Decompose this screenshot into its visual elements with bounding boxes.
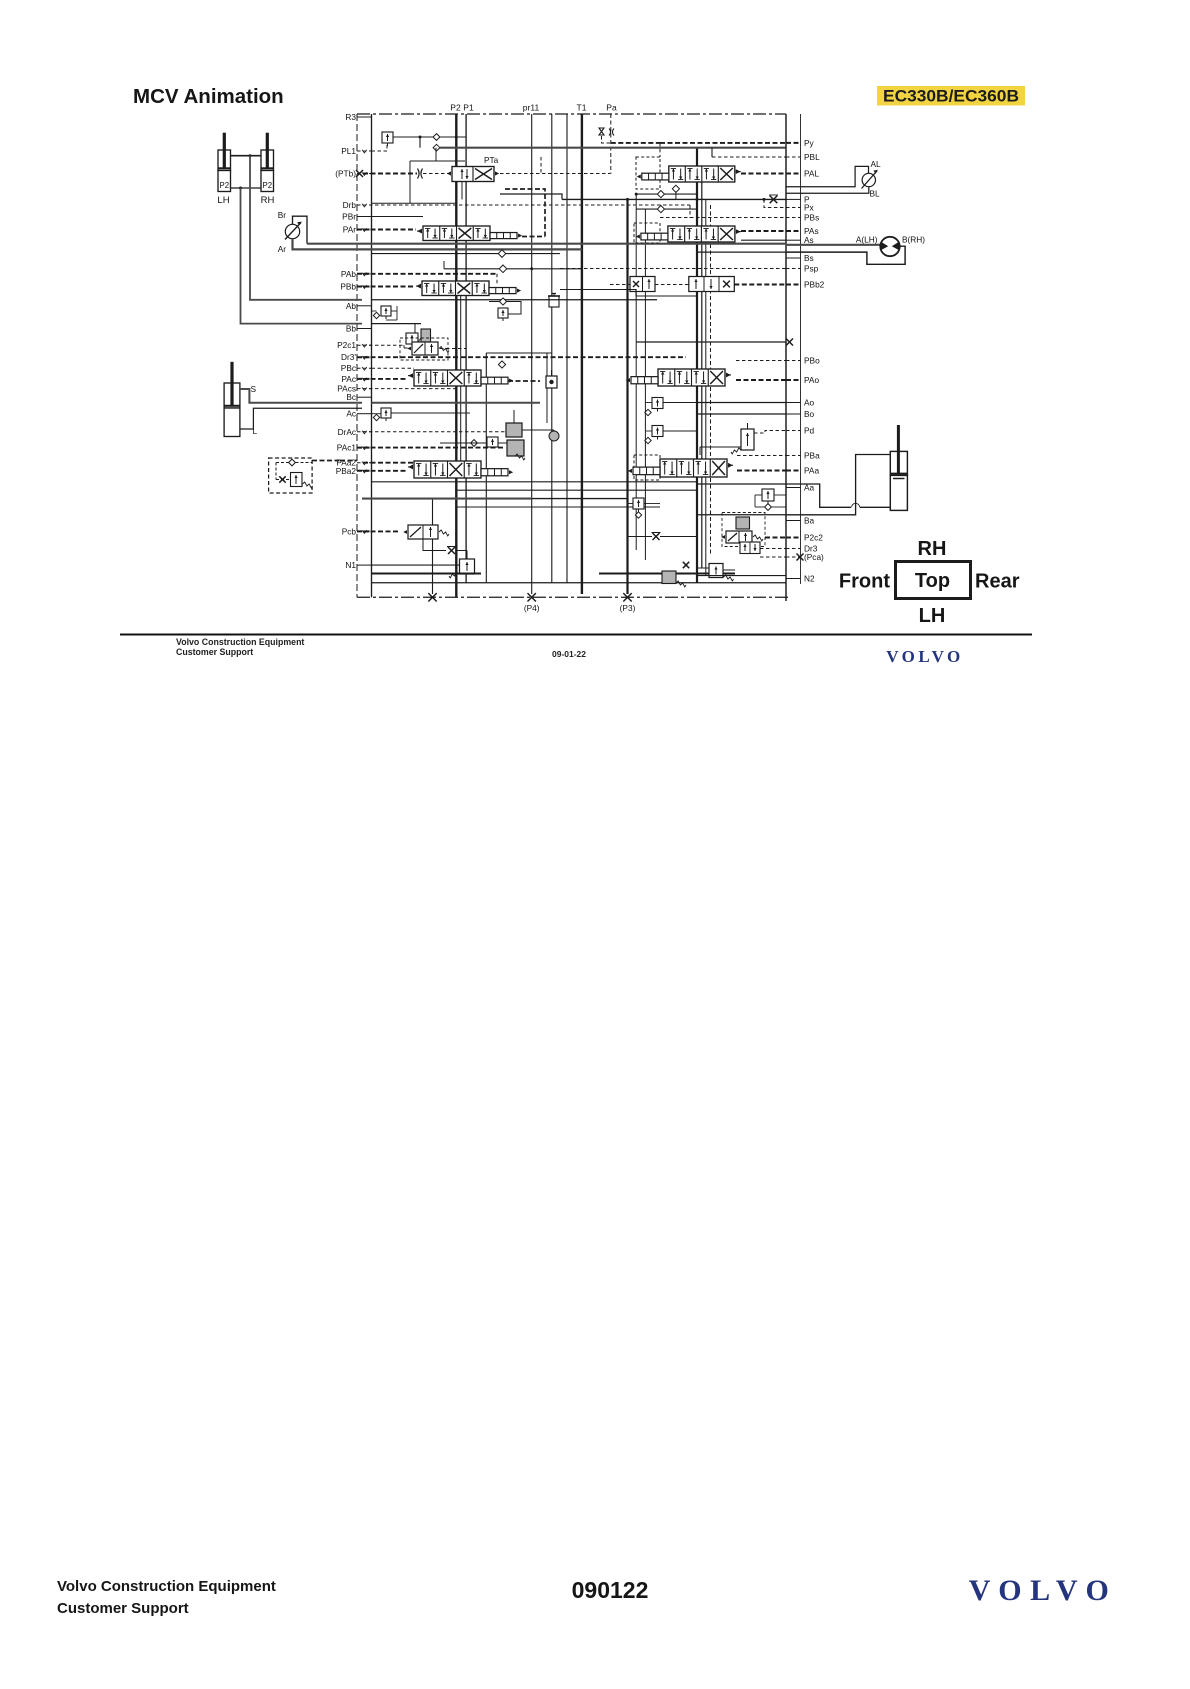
- svg-text:Bb: Bb: [346, 324, 357, 334]
- directional valve PAa2-PBa2: [414, 461, 481, 478]
- wire Aa cluster: [755, 494, 762, 496]
- wire As to motor thick: [786, 244, 881, 246]
- check valve above relief: [499, 298, 506, 305]
- svg-text:PBo: PBo: [804, 356, 820, 366]
- directional valve PAL: [669, 166, 735, 182]
- wire PAa2 dashed: [312, 460, 340, 462]
- wire Drb dashed pilot: [363, 204, 690, 206]
- wire Bc inside: [372, 402, 541, 404]
- svg-text:Pd: Pd: [804, 426, 815, 436]
- directional valve PAb-PBb: [422, 281, 489, 296]
- bus P2 parallel line: [460, 295, 462, 478]
- relief valve Ab cluster: [381, 306, 391, 316]
- svg-text:VOLVO: VOLVO: [969, 1574, 1118, 1607]
- gauge arrow: [862, 171, 878, 189]
- relief valve Bo: [652, 426, 663, 437]
- wire relief feed: [628, 503, 634, 505]
- wire bridge line 3 thick: [362, 498, 532, 500]
- svg-text:A(LH): A(LH): [856, 235, 878, 245]
- wire relief Ao: [645, 402, 652, 404]
- right bank vertical line e: [644, 209, 646, 560]
- wire PBL dashed: [712, 156, 786, 158]
- svg-text:PBa2: PBa2: [336, 466, 357, 476]
- wire Psp dashed: [560, 268, 786, 270]
- solenoid valve Bb cluster gray: [421, 329, 431, 342]
- wire P2c2 dashed: [765, 537, 786, 539]
- wire cylinders to port Bb: [241, 188, 363, 324]
- wire PBr to valve: [372, 216, 424, 218]
- pilot dashed riser near PTa: [540, 157, 542, 174]
- svg-text:LH: LH: [919, 605, 946, 627]
- plug X at (P4): [528, 593, 536, 601]
- relief valve Ao: [652, 398, 663, 409]
- check valves near P line: [657, 191, 664, 198]
- svg-text:R3: R3: [345, 112, 356, 122]
- wire Ar travel line B thick: [293, 239, 582, 250]
- wire P2c1 out dashed: [440, 348, 466, 350]
- plug X at (PTb): [356, 170, 363, 177]
- wire PAa pilot dashed: [737, 470, 786, 472]
- throttle check box: [487, 437, 498, 447]
- wire PAs pilot dashed: [741, 230, 786, 232]
- wire PAL to gauge: [786, 166, 869, 186]
- svg-text:Volvo Construction Equipment: Volvo Construction Equipment: [176, 637, 304, 647]
- svg-text:Customer Support: Customer Support: [57, 1600, 189, 1617]
- throttle N2 line: [653, 533, 660, 540]
- svg-text:PAc1: PAc1: [337, 443, 357, 453]
- wire N2: [697, 567, 709, 569]
- wire PBa2 pilot dashed: [363, 470, 407, 472]
- wire relief loop: [489, 301, 499, 303]
- Pa filter symbol b: [609, 129, 614, 136]
- wire PTa bottom stubs: [456, 182, 458, 195]
- valve in box: [291, 473, 303, 487]
- svg-text:T1: T1: [577, 103, 587, 113]
- check valve in box: [289, 459, 296, 466]
- check valve above valve3: [498, 361, 505, 368]
- svg-text:P2: P2: [263, 181, 273, 190]
- wire PTa drain dashed: [500, 173, 610, 175]
- bus P2 vertical supply line: [455, 114, 457, 597]
- bus Pa dashed pilot vertical: [610, 114, 612, 174]
- svg-text:Ar: Ar: [278, 244, 287, 254]
- wire Aa to cylinder: [786, 484, 851, 507]
- wire check to P2 bus: [440, 136, 467, 138]
- cylinder RH: [261, 150, 274, 171]
- svg-text:PBr: PBr: [342, 212, 356, 222]
- relief valve gray bottom: [662, 571, 676, 584]
- svg-text:Px: Px: [804, 203, 815, 213]
- wire bottom rail: [372, 582, 787, 584]
- plug X at (P3): [623, 593, 631, 601]
- valve Dr3: [740, 542, 760, 554]
- svg-text:P2c2: P2c2: [804, 533, 823, 543]
- wire Pcb down: [423, 539, 446, 551]
- spring in box: [303, 482, 313, 488]
- check valve lower: [433, 144, 440, 151]
- wire PBb2 dashed out: [734, 284, 786, 286]
- svg-text:PAL: PAL: [804, 169, 819, 179]
- wire Bo: [697, 413, 786, 415]
- wire cylinders to port Ab: [250, 156, 362, 300]
- wire As inside: [741, 239, 786, 241]
- svg-text:(P3): (P3): [620, 603, 636, 613]
- wire Ab inside: [372, 299, 658, 301]
- wire port S to Bc: [240, 389, 362, 403]
- wire N1: [372, 564, 460, 566]
- wire step lines below PBb2: [560, 290, 697, 297]
- wire Pd dashed: [754, 431, 786, 434]
- valve block right boundary: [785, 114, 787, 601]
- svg-text:PBs: PBs: [804, 213, 819, 223]
- wire relief to checks: [393, 136, 434, 138]
- right bank vertical supply thick: [696, 148, 698, 583]
- svg-text:PL1: PL1: [341, 146, 356, 156]
- wire PAL pilot dashed: [741, 173, 786, 175]
- wire port L to Ac: [240, 408, 362, 429]
- dashed enclosure P2c2: [722, 513, 765, 547]
- directional valve PAr-PBr: [423, 226, 490, 241]
- wire Dr3p dashed long: [363, 356, 686, 358]
- wire N2 rail: [697, 575, 786, 577]
- wire to reducing: [440, 442, 487, 444]
- svg-text:LH: LH: [217, 195, 229, 206]
- wire cylinder upper link: [231, 155, 262, 157]
- directional valve PAa: [660, 459, 727, 477]
- wire Ba to cylinder: [786, 455, 890, 515]
- pilot ball gray: [549, 431, 559, 441]
- throttle on P line: [770, 196, 778, 204]
- svg-text:MCV Animation: MCV Animation: [133, 85, 284, 108]
- wire check riser: [675, 192, 677, 199]
- wire Br to travel line: [293, 216, 308, 244]
- wire Bs to motor: [786, 246, 905, 264]
- wire Bs inside: [697, 251, 786, 253]
- wire N1 thick bottom left: [372, 573, 482, 575]
- directional valve PAs: [668, 226, 735, 242]
- wire Pcb dashed: [363, 530, 399, 532]
- svg-text:Customer Support: Customer Support: [176, 647, 253, 657]
- wire check line a: [636, 193, 657, 195]
- wire PBb2 dashed mid: [655, 284, 689, 286]
- svg-text:N2: N2: [804, 574, 815, 584]
- wire PAb pilot dashed: [363, 273, 497, 275]
- pilot valve P2c1: [412, 342, 438, 355]
- wire line b under valve1: [444, 268, 582, 270]
- svg-text:Rear: Rear: [975, 571, 1020, 593]
- svg-text:P2: P2: [450, 103, 461, 113]
- reducing valve gray lower: [507, 440, 524, 456]
- svg-text:(PTb): (PTb): [335, 169, 356, 179]
- svg-text:P2: P2: [220, 181, 230, 190]
- dashed enclosure PAs pilot: [634, 223, 660, 243]
- wire feed to reducing cluster: [546, 353, 548, 423]
- wire PL1 dashed: [372, 144, 388, 151]
- relief valve Aa: [762, 489, 774, 501]
- relief valve port Ab: [498, 308, 508, 318]
- wire line under valve1: [372, 253, 561, 255]
- directional valve PAo: [658, 369, 725, 386]
- bus T1 vertical line: [581, 114, 583, 594]
- wire bridge line 2: [455, 489, 697, 491]
- wire Dr3 dashed: [760, 548, 786, 550]
- wire PAc1 dashed: [363, 447, 505, 449]
- svg-text:Front: Front: [839, 571, 890, 593]
- svg-text:PBL: PBL: [804, 152, 820, 162]
- wire Pd feed: [700, 446, 741, 448]
- model badge EC330B/EC360B: [877, 86, 1025, 106]
- pilot valve Pcb: [408, 525, 438, 539]
- svg-text:RH: RH: [261, 195, 275, 206]
- center tall chamber left edge: [485, 353, 487, 583]
- svg-text:B(RH): B(RH): [902, 235, 925, 245]
- throttle N1: [448, 547, 455, 554]
- dashed enclosure PAa pilot: [634, 455, 660, 480]
- wire PAcs dashed: [363, 388, 456, 390]
- wire main supply thick gray: [440, 147, 786, 149]
- svg-text:Drb: Drb: [343, 200, 357, 210]
- valve block outer frame top: [357, 113, 786, 115]
- svg-text:pr11: pr11: [523, 103, 540, 113]
- wire PBb2 dashed left stub: [610, 284, 630, 286]
- wire Ab cluster: [372, 310, 377, 312]
- svg-text:DrAc: DrAc: [338, 427, 356, 437]
- wire PTb dashed to valve: [363, 173, 417, 175]
- wire N1 thick bottom right: [599, 573, 735, 575]
- compass box: [896, 562, 971, 599]
- valve PBb2 left: [630, 277, 655, 292]
- wire to plug X right frame: [636, 341, 786, 343]
- wire PAo pilot dashed: [736, 379, 786, 381]
- svg-text:PBa: PBa: [804, 451, 820, 461]
- wire PBo dashed: [736, 360, 786, 362]
- right bank vertical line c: [705, 199, 707, 575]
- svg-text:AL: AL: [871, 159, 882, 169]
- wire Bb inside: [372, 323, 422, 325]
- wire DrAc dashed: [363, 431, 505, 433]
- wire valve1 tail dashed: [505, 189, 545, 237]
- valve Bb cluster small: [406, 333, 418, 344]
- wire elbow down: [419, 137, 421, 148]
- svg-text:Bc: Bc: [346, 392, 356, 402]
- wire relief Bo: [645, 430, 652, 432]
- wire valve3 tail: [508, 380, 540, 382]
- svg-text:PBc: PBc: [341, 363, 356, 373]
- svg-text:S: S: [251, 384, 257, 394]
- svg-text:Volvo Construction Equipment: Volvo Construction Equipment: [57, 1578, 276, 1595]
- plug X at (Pca): [797, 554, 804, 561]
- bus P1 vertical supply line: [465, 114, 467, 583]
- svg-text:Dr3': Dr3': [341, 352, 356, 362]
- wire PTa left loop: [435, 148, 437, 161]
- svg-text:BL: BL: [870, 189, 881, 199]
- wire to N1 relief: [456, 550, 467, 552]
- wire Bb cluster: [414, 324, 416, 333]
- bus vertical line center-b: [566, 114, 568, 583]
- relief valve bottom right a: [633, 498, 644, 509]
- bus vertical line P3 drop: [626, 199, 628, 594]
- bus pr11 vertical line: [531, 114, 533, 594]
- relief valve PL1: [382, 132, 393, 143]
- svg-text:Bo: Bo: [804, 409, 815, 419]
- valve block left outer boundary: [356, 114, 358, 597]
- valve block left inner boundary: [371, 114, 373, 597]
- wire reducing cluster: [522, 429, 554, 431]
- wire Pa dashed elbow: [602, 136, 611, 143]
- throttle in box: [279, 476, 285, 482]
- right bank vertical line d: [635, 194, 637, 550]
- svg-text:P1: P1: [463, 103, 474, 113]
- valve block outer frame bottom: [357, 596, 790, 598]
- motor A-B circle: [880, 237, 899, 256]
- center tall chamber top edge: [486, 352, 552, 354]
- wire Aa inside: [697, 483, 786, 485]
- svg-text:PBb2: PBb2: [804, 280, 825, 290]
- wire bridge line 4: [455, 506, 660, 508]
- wire Pca dashed: [760, 556, 786, 558]
- svg-text:PTa: PTa: [484, 155, 499, 165]
- svg-text:PAb: PAb: [341, 269, 356, 279]
- svg-text:Py: Py: [804, 138, 815, 148]
- check valve upper: [433, 134, 440, 141]
- svg-text:PBb: PBb: [340, 282, 356, 292]
- svg-text:PAc: PAc: [341, 374, 356, 384]
- svg-text:PAa: PAa: [804, 466, 819, 476]
- svg-text:Pcb: Pcb: [342, 526, 357, 536]
- cylinder rod right: [897, 425, 900, 473]
- Pa filter symbol a: [599, 128, 604, 135]
- wire PAc pilot dashed: [363, 378, 407, 380]
- plug X at right frame mid: [786, 339, 793, 346]
- wire PBb pilot dashed: [363, 286, 414, 288]
- wire Ao: [697, 402, 786, 404]
- svg-text:09-01-22: 09-01-22: [552, 649, 586, 659]
- bus vertical line center-a: [551, 114, 553, 583]
- right bank vertical dashed pilot: [710, 205, 712, 556]
- right label leader line: [800, 114, 802, 584]
- plug X at bottom left: [428, 593, 436, 601]
- svg-text:Br: Br: [278, 210, 287, 220]
- pilot valve PTa: [452, 167, 494, 182]
- wire Ba inside: [697, 514, 786, 516]
- pilot valve P2c2: [726, 531, 752, 543]
- wire Ar travel line A thick: [307, 243, 786, 245]
- svg-text:N1: N1: [345, 560, 356, 570]
- wire P2c1 dashed: [363, 344, 404, 346]
- svg-text:VOLVO: VOLVO: [886, 647, 964, 666]
- wire Py dashed: [660, 142, 786, 144]
- gauge AL-BL circle: [862, 173, 875, 186]
- wire PBL solid riser: [711, 148, 713, 157]
- wire box internals: [276, 479, 291, 481]
- orifice plug valve3: [546, 376, 557, 388]
- cylinder S-L: [224, 383, 240, 408]
- cylinder LH: [218, 150, 231, 171]
- relief valve Ac cluster: [381, 408, 391, 418]
- svg-text:Psp: Psp: [804, 264, 819, 274]
- reducing valve Pd: [741, 429, 754, 450]
- pump arrow: [285, 223, 301, 240]
- relief valve N2: [709, 564, 723, 578]
- center drop to P4 mark: [432, 499, 434, 594]
- pump Br-Ar circle: [285, 224, 299, 238]
- solenoid valve P2c2 gray: [736, 517, 750, 529]
- wire PAr pilot dashed: [363, 229, 416, 231]
- svg-text:Ac: Ac: [346, 409, 356, 419]
- svg-text:Ao: Ao: [804, 398, 815, 408]
- svg-text:RH: RH: [918, 538, 947, 560]
- svg-text:(P4): (P4): [524, 603, 540, 613]
- wire Pa to Py dashed: [611, 142, 660, 144]
- svg-text:Ab: Ab: [346, 301, 357, 311]
- footer rule: [120, 633, 1032, 635]
- wire PBs dashed: [660, 217, 786, 219]
- relief valve N1: [460, 559, 475, 574]
- wire Drb drop: [689, 205, 691, 218]
- wire PBc dashed: [372, 367, 415, 369]
- svg-text:PAr: PAr: [343, 225, 356, 235]
- svg-text:PAo: PAo: [804, 375, 819, 385]
- dashed enclosure PAL pilot: [636, 157, 660, 189]
- svg-text:P2c1: P2c1: [337, 340, 356, 350]
- wire cylinder lower link: [231, 187, 262, 189]
- wire check line b: [636, 208, 657, 210]
- dashed enclosure PAa2: [269, 458, 313, 493]
- check valve feed: [471, 440, 478, 447]
- svg-text:090122: 090122: [572, 1577, 649, 1603]
- wire P line stepped: [500, 194, 562, 199]
- svg-text:Ba: Ba: [804, 516, 815, 526]
- directional valve PBb2: [689, 277, 735, 292]
- dashed box P2c1: [400, 338, 448, 360]
- svg-text:(Pca): (Pca): [804, 552, 824, 562]
- right bank vertical line b: [701, 166, 703, 568]
- wire PBa dashed: [737, 455, 786, 457]
- wire Ac inside: [372, 413, 382, 415]
- wire P line main: [562, 198, 786, 200]
- reducing valve gray upper: [506, 423, 522, 437]
- orifice plug fitting: [549, 296, 559, 307]
- svg-text:Pa: Pa: [606, 103, 617, 113]
- directional valve PAc-PBc: [414, 370, 481, 386]
- wire gauge BL out: [786, 187, 869, 194]
- cylinder bucket right: [890, 451, 907, 475]
- throttle before N2: [683, 562, 689, 568]
- orifice symbol PTb: [418, 169, 423, 179]
- svg-text:Top: Top: [915, 570, 950, 592]
- svg-text:EC330B/EC360B: EC330B/EC360B: [883, 88, 1019, 106]
- svg-text:Bs: Bs: [804, 253, 814, 263]
- wire Px dashed: [764, 199, 786, 207]
- wire bridge line 1: [372, 481, 698, 483]
